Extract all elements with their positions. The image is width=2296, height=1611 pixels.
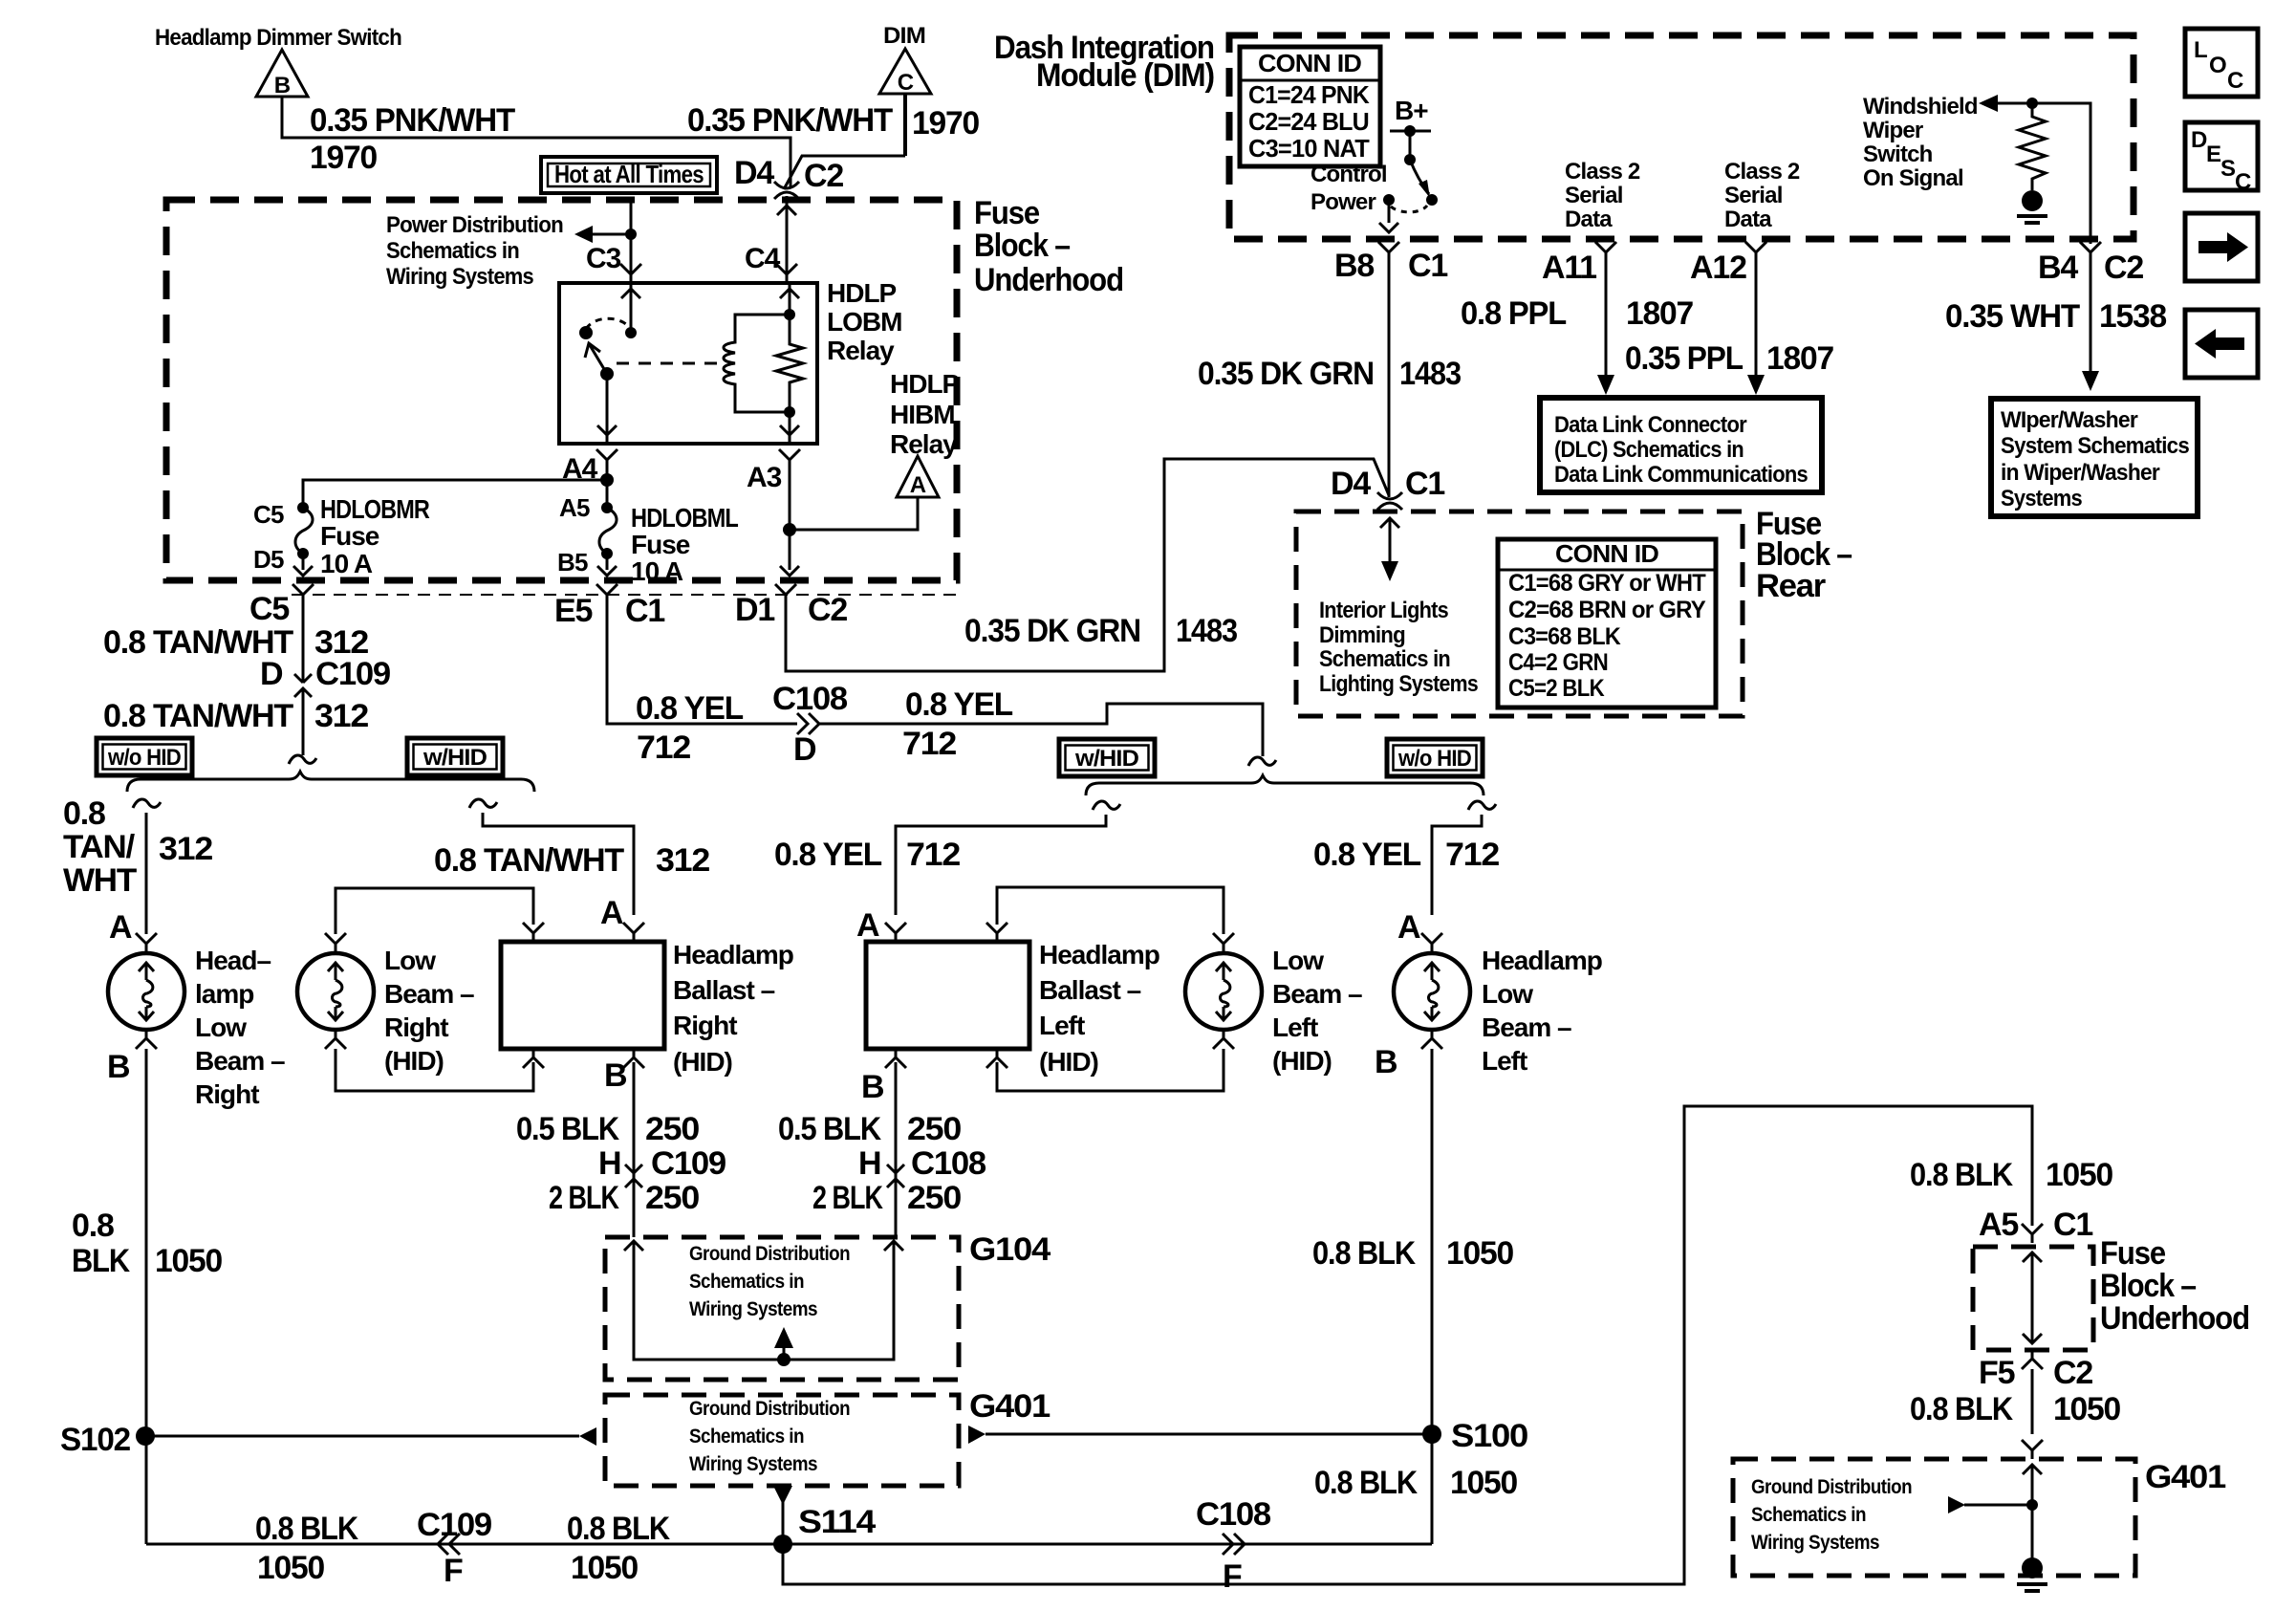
ground arrow G104 [777,1353,791,1366]
svg-text:A: A [600,895,623,931]
svg-text:Block –: Block – [2100,1268,2196,1304]
svg-text:CONN ID: CONN ID [1258,49,1361,77]
svg-text:Serial: Serial [1724,183,1783,208]
svg-text:E5: E5 [554,593,592,629]
connector C108 (F) [1223,1534,1245,1555]
svg-text:0.8 YEL: 0.8 YEL [636,690,743,727]
svg-text:TAN/: TAN/ [63,829,136,865]
right arrow legend box [2185,213,2258,281]
svg-text:C1: C1 [1405,466,1444,502]
svg-text:HDLOBML: HDLOBML [631,503,739,533]
wire ballast right B down [633,1062,636,1237]
tilde w/o HID branch (right) [1468,801,1496,810]
svg-text:1050: 1050 [2046,1157,2112,1193]
svg-text:H: H [598,1145,620,1182]
svg-text:Fuse: Fuse [2100,1235,2165,1272]
svg-text:H: H [858,1145,880,1182]
off-page connector B (triangle) [256,50,308,98]
svg-text:HDLP: HDLP [890,369,960,399]
svg-text:G401: G401 [2145,1459,2225,1495]
relay coil [724,315,790,412]
svg-text:WHT: WHT [63,862,137,899]
connector B8/C1 [1378,242,1399,261]
wire 0.8 TAN/WHT 312 from C5 [302,603,305,669]
svg-text:Wiring Systems: Wiring Systems [1751,1532,1879,1554]
tilde w/HID branch (left) [1093,801,1120,810]
svg-text:Dimming: Dimming [1319,622,1405,648]
svg-text:C5=2 BLK: C5=2 BLK [1508,675,1605,702]
svg-text:A: A [1397,909,1420,946]
headlamp low beam left bulb [1394,953,1470,1030]
svg-text:S100: S100 [1451,1418,1527,1454]
svg-text:1538: 1538 [2099,298,2166,335]
left arrow legend box [2185,310,2258,378]
svg-text:C3: C3 [586,243,621,274]
svg-text:CONN ID: CONN ID [1555,539,1658,568]
wire triangle A to A3 wire [790,497,918,530]
relay switch [621,289,640,298]
svg-text:C2=68 BRN or GRY: C2=68 BRN or GRY [1508,597,1706,623]
svg-text:0.5 BLK: 0.5 BLK [516,1111,619,1147]
svg-text:0.8: 0.8 [63,795,105,832]
svg-text:712: 712 [906,837,960,873]
fuse HDLOBMR 10A [295,502,313,559]
svg-text:A: A [109,909,132,946]
svg-text:Underhood: Underhood [2100,1300,2249,1337]
svg-text:C5: C5 [253,500,284,529]
svg-text:D: D [2191,127,2207,153]
wire through fuse block [2023,1252,2042,1262]
svg-text:D: D [793,731,816,768]
fuse HDLOBML 10A [599,502,617,559]
control power switch [1410,160,1429,194]
connector C109 (D) [294,664,312,707]
svg-text:Schematics in: Schematics in [689,1271,804,1293]
connector into G401 [2022,1440,2043,1459]
svg-text:Windshield: Windshield [1863,94,1978,120]
svg-text:HDLOBMR: HDLOBMR [320,494,430,524]
svg-text:A5: A5 [1979,1207,2018,1243]
connector B4/C2 [2080,242,2101,261]
svg-text:Data Link Connector: Data Link Connector [1554,412,1746,438]
connector E5/C1 [596,584,617,603]
svg-text:Systems: Systems [2001,486,2082,512]
svg-text:1970: 1970 [310,140,377,176]
off-page connector A (HDLP HIBM triangle) [897,456,939,498]
svg-text:B8: B8 [1334,248,1374,284]
svg-text:C108: C108 [772,681,847,717]
svg-text:C5: C5 [249,591,289,627]
Wiper/Washer callout box [1991,399,2198,516]
svg-text:Right: Right [673,1011,737,1040]
svg-text:Switch: Switch [1863,142,1933,167]
connector D4/C2 splice symbol [774,182,799,199]
svg-text:Wiring Systems: Wiring Systems [386,264,533,290]
svg-text:Control: Control [1310,162,1387,187]
svg-text:L: L [2194,37,2207,63]
svg-text:C2: C2 [2104,250,2143,286]
wire 0.35 PNK/WHT 1970 from B to D4/C2 [282,97,791,187]
svg-text:w/o HID: w/o HID [107,745,181,771]
svg-text:Right: Right [384,1012,448,1042]
relay HDLP LOBM box [559,283,817,444]
wire below fuse D5 [302,554,305,570]
svg-text:250: 250 [645,1180,699,1216]
svg-text:Headlamp: Headlamp [1482,946,1602,975]
svg-text:Head–: Head– [195,946,271,975]
svg-text:Underhood: Underhood [974,262,1123,298]
svg-text:10 A: 10 A [631,556,683,586]
svg-text:A11: A11 [1542,250,1596,286]
wire below C109 [302,707,305,755]
svg-text:C3=68 BLK: C3=68 BLK [1508,623,1621,650]
junction S102 [136,1426,155,1446]
junction S114 [773,1535,792,1554]
Data Link Connector callout box [1540,398,1822,492]
fuse block rear dashed box [1296,512,1743,716]
svg-text:1050: 1050 [257,1550,324,1586]
svg-text:D: D [260,656,283,692]
svg-text:C1=68 GRY or WHT: C1=68 GRY or WHT [1508,570,1705,597]
wire A3 down [789,468,791,570]
svg-text:B: B [861,1069,884,1105]
svg-text:S114: S114 [798,1504,876,1540]
svg-text:Module (DIM): Module (DIM) [1036,57,1214,94]
wire from triangle C to D4/C2 [903,94,907,156]
wire ballast left B down [895,1062,898,1237]
svg-text:Power Distribution: Power Distribution [386,212,563,238]
option split tilde [1248,757,1276,766]
svg-text:250: 250 [645,1111,699,1147]
wire A4 junction to left fuse [303,468,607,508]
connector A11 [1595,242,1616,261]
label w/HID box [1059,739,1155,776]
svg-text:G401: G401 [969,1388,1050,1425]
svg-text:0.8 TAN/WHT: 0.8 TAN/WHT [434,842,624,879]
svg-text:A: A [910,472,926,498]
svg-text:C2: C2 [808,592,847,628]
svg-text:C2: C2 [804,158,843,194]
svg-text:0.35 PNK/WHT: 0.35 PNK/WHT [310,102,515,139]
svg-text:S102: S102 [60,1422,130,1458]
tilde w/HID branch [469,799,497,808]
svg-text:HDLP: HDLP [827,278,897,308]
connector F5/C2 [2022,1350,2043,1369]
svg-text:Fuse: Fuse [974,195,1039,231]
svg-text:w/HID: w/HID [1074,746,1139,772]
svg-text:0.5 BLK: 0.5 BLK [778,1111,881,1147]
wire 0.35 WHT 1538 [2090,261,2092,373]
svg-text:0.35 WHT: 0.35 WHT [1945,298,2080,335]
wire HID lamp bottom to ballast [325,1030,346,1049]
connector B ballast right [623,1049,644,1068]
svg-text:B: B [1375,1044,1397,1080]
connector A ballast left [885,923,906,942]
svg-text:1483: 1483 [1176,613,1237,649]
connector C5 below fuse block [292,584,314,603]
svg-text:F5: F5 [1979,1355,2015,1391]
ground distribution G104 dashed box [605,1237,959,1380]
svg-text:WIper/Washer: WIper/Washer [2001,407,2137,433]
svg-text:F: F [444,1553,463,1589]
connector C108 (H) [887,1155,904,1197]
relay coil resistor [776,283,803,444]
svg-text:Right: Right [195,1079,259,1109]
svg-text:C: C [2235,169,2251,195]
connector D1/C2 [775,584,796,603]
svg-text:(DLC) Schematics in: (DLC) Schematics in [1554,437,1744,463]
svg-text:Left: Left [1039,1011,1085,1040]
wire HID lamp bottom to ballast left [1213,1030,1234,1049]
svg-text:0.8 YEL: 0.8 YEL [1313,837,1420,873]
connector A4 [596,449,617,468]
svg-text:0.8 PPL: 0.8 PPL [1461,295,1566,332]
svg-text:Ballast –: Ballast – [1039,975,1141,1005]
connector C4 [776,264,797,283]
svg-text:Beam –: Beam – [195,1046,285,1076]
svg-text:E: E [2206,142,2221,167]
svg-text:0.8: 0.8 [72,1208,114,1244]
svg-text:0.35 PNK/WHT: 0.35 PNK/WHT [687,102,893,139]
svg-text:C1: C1 [1408,248,1447,284]
svg-text:1050: 1050 [2053,1391,2120,1427]
svg-text:1050: 1050 [571,1550,638,1586]
svg-text:(HID): (HID) [1272,1046,1332,1076]
svg-text:Wiring Systems: Wiring Systems [689,1453,817,1475]
svg-text:Ground Distribution: Ground Distribution [689,1243,850,1265]
svg-text:Fuse: Fuse [631,530,690,559]
arrow into S114 from G401 [773,1486,792,1505]
svg-text:C1: C1 [2053,1207,2092,1243]
svg-text:Beam –: Beam – [384,979,474,1009]
label w/o HID box [97,738,192,775]
svg-text:A5: A5 [559,493,590,522]
svg-text:Beam –: Beam – [1272,979,1362,1009]
svg-text:Data: Data [1724,207,1772,232]
svg-text:Ground Distribution: Ground Distribution [1751,1476,1912,1498]
wire 0.35 DK GRN 1483 down [1388,261,1391,497]
svg-text:0.8 YEL: 0.8 YEL [905,686,1012,723]
svg-text:0.35 DK GRN: 0.35 DK GRN [1198,356,1374,392]
wire F5 down [2031,1369,2034,1434]
svg-text:B5: B5 [557,548,588,577]
fuse block underhood (right) dashed box [1973,1247,2093,1350]
wire C4 [786,196,789,283]
connector A headlamp left [1421,933,1442,952]
svg-text:2 BLK: 2 BLK [549,1180,619,1216]
svg-text:Wiring Systems: Wiring Systems [689,1298,817,1320]
svg-text:On Signal: On Signal [1863,165,1963,191]
svg-text:Class 2: Class 2 [1724,159,1800,185]
svg-text:w/HID: w/HID [422,745,487,771]
svg-text:712: 712 [1445,837,1499,873]
svg-text:C1=24 PNK: C1=24 PNK [1248,80,1370,109]
svg-text:712: 712 [637,729,690,766]
svg-text:(HID): (HID) [384,1046,444,1076]
wire C108 to brace (0.8 YEL jog) [819,704,1263,756]
option split tilde [289,755,316,764]
wire below fuse B5 [606,554,609,570]
svg-text:0.8 TAN/WHT: 0.8 TAN/WHT [103,698,293,734]
svg-text:Beam –: Beam – [1482,1012,1571,1042]
svg-text:1807: 1807 [1766,340,1833,377]
svg-text:B: B [604,1057,627,1094]
wire ground bus 1050 [146,1543,1432,1546]
thin dashed connector face line [292,594,961,596]
wire 0.8 PPL 1807 [1605,261,1608,377]
ground at wiper switch [2022,190,2043,211]
svg-text:B: B [107,1049,130,1085]
svg-text:in Wiper/Washer: in Wiper/Washer [2001,460,2159,486]
svg-text:2 BLK: 2 BLK [812,1180,883,1216]
svg-text:Headlamp: Headlamp [673,940,793,969]
tilde w/o HID branch [133,799,161,808]
wire into interior lights [1380,518,1399,528]
svg-text:A: A [856,907,879,944]
svg-text:Left: Left [1482,1046,1527,1076]
svg-text:S: S [2220,156,2236,182]
off-page connector C (DIM triangle) [879,23,931,96]
connector A3 [779,449,800,468]
svg-text:B4: B4 [2038,250,2078,286]
connector B headlamp right [136,1030,157,1049]
svg-text:Low: Low [195,1012,247,1042]
arrow stub inside G401 [1964,1504,2032,1507]
wire inside G401 to ground [2023,1465,2042,1474]
svg-text:B: B [274,73,291,98]
svg-text:Low: Low [384,946,436,975]
svg-text:Left: Left [1272,1012,1318,1042]
svg-text:Schematics in: Schematics in [1319,646,1450,672]
wire C3 feed with left arrow [593,203,631,283]
headlamp ballast left box [866,942,1029,1049]
svg-text:Schematics in: Schematics in [689,1426,804,1448]
low beam left HID bulb [1185,953,1262,1030]
connector C109 (F) [438,1534,460,1555]
svg-text:250: 250 [907,1111,961,1147]
svg-text:C: C [2227,68,2243,94]
connector B ballast left [885,1049,906,1068]
wire to ballast left pin A [896,815,1106,915]
wire 0.8 YEL 712 from E5 [607,603,797,724]
connector A12 [1745,242,1766,261]
connector B headlamp left [1421,1030,1442,1049]
svg-text:1050: 1050 [1450,1465,1517,1501]
svg-text:Headlamp: Headlamp [1039,940,1159,969]
junction S100 [1422,1425,1441,1444]
svg-text:1970: 1970 [912,105,979,142]
svg-text:Low: Low [1272,946,1324,975]
svg-text:BLK: BLK [72,1243,130,1279]
svg-text:D1: D1 [735,592,774,628]
wire to ballast right pin A [483,813,634,915]
svg-text:C109: C109 [315,656,390,692]
svg-text:Block –: Block – [974,228,1070,264]
svg-text:312: 312 [656,842,709,879]
svg-text:C2: C2 [2053,1355,2092,1391]
svg-text:Rear: Rear [1756,568,1826,604]
svg-text:HIBM: HIBM [890,400,955,429]
CONN ID table (DIM) [1240,47,1380,166]
svg-text:Ground Distribution: Ground Distribution [689,1398,850,1420]
Hot at All Times callout box [541,157,717,193]
svg-text:0.8 YEL: 0.8 YEL [774,837,881,873]
svg-text:Schematics in: Schematics in [386,238,519,264]
svg-text:Fuse: Fuse [320,521,379,551]
headlamp ballast right box [501,942,664,1049]
connector chevron into fuse block [777,206,796,215]
connector A5/C1 [2022,1224,2043,1243]
svg-text:1807: 1807 [1626,295,1693,332]
svg-text:C4=2 GRN: C4=2 GRN [1508,649,1608,676]
svg-text:C4: C4 [745,243,781,274]
connector C109 (H) [625,1155,642,1197]
brace for HID options (left pair) [127,772,534,792]
wire 0.35 PPL 1807 [1755,261,1758,377]
svg-text:250: 250 [907,1180,961,1216]
svg-text:Ballast –: Ballast – [673,975,775,1005]
svg-text:C108: C108 [911,1145,986,1182]
svg-text:LOBM: LOBM [827,307,901,337]
wire S114 down and right to fuse block underhood right [783,1106,2032,1584]
svg-text:0.8 BLK: 0.8 BLK [1910,1157,2013,1193]
svg-text:1050: 1050 [155,1243,222,1279]
svg-text:C3=10 NAT: C3=10 NAT [1248,134,1370,163]
svg-text:Relay: Relay [827,336,895,365]
wire to headlamp low beam right [145,813,148,915]
svg-text:0.8 BLK: 0.8 BLK [255,1511,358,1547]
CONN ID table (rear) [1498,539,1716,708]
wire control power down [1388,200,1391,223]
wire lamp B down to S102 [145,1049,148,1544]
svg-text:0.8 BLK: 0.8 BLK [1314,1465,1418,1501]
label w/o HID box [1387,739,1483,776]
connector D4/C1 splice symbol [1377,492,1402,510]
connector C108 (D) [797,713,819,734]
connector A headlamp right [136,933,157,952]
wire 0.35 DK GRN net2: D1/C2 to D4/C1 [786,459,1389,671]
LOC legend box [2185,29,2258,97]
resistor in wiper switch [2019,103,2046,190]
svg-text:Wiper: Wiper [1863,118,1923,143]
svg-text:Data: Data [1565,207,1613,232]
ground G401 [2022,1557,2043,1578]
wire HID lamp top to ballast [325,933,346,952]
ground distribution G401 dashed box (right) [1733,1459,2135,1576]
svg-text:Power: Power [1310,189,1375,215]
svg-text:C1: C1 [625,593,664,629]
svg-text:A3: A3 [747,462,782,493]
svg-text:D4: D4 [734,155,774,191]
connector A ballast right [623,923,644,942]
svg-text:(HID): (HID) [1039,1047,1098,1077]
fuse block underhood dashed outline [166,200,957,580]
wire S102 to G401 with arrow [145,1435,579,1438]
wire G401 to S100 with arrow [986,1433,1432,1436]
svg-text:312: 312 [314,698,368,734]
DESC legend box [2185,122,2258,195]
svg-text:312: 312 [159,831,212,867]
svg-text:0.35 DK GRN: 0.35 DK GRN [964,613,1140,649]
brace for HID options (right pair) [1086,775,1484,795]
svg-text:(HID): (HID) [673,1047,732,1077]
svg-text:1483: 1483 [1399,356,1461,392]
svg-text:D5: D5 [253,545,284,574]
svg-text:C109: C109 [417,1507,491,1543]
svg-text:0.8 BLK: 0.8 BLK [1312,1235,1416,1272]
headlamp low beam right bulb [108,953,184,1030]
svg-text:System Schematics: System Schematics [2001,433,2189,459]
